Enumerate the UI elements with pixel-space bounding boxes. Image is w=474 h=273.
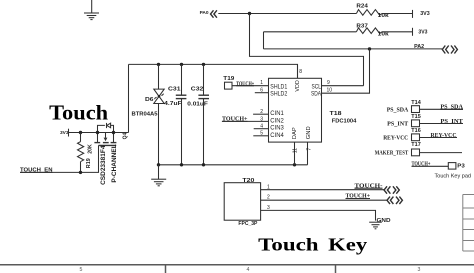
- svg-text:REY-VCC: REY-VCC: [383, 136, 408, 142]
- transistor Q4 body-diode loop: [98, 123, 114, 133]
- wire PA0 riser: [250, 14, 364, 86]
- pad P3 box: [448, 163, 456, 170]
- svg-text:5: 5: [260, 131, 263, 137]
- pin 11 DAP stub: [294, 142, 296, 165]
- title block table: [463, 195, 474, 252]
- port PA2 chevrons: [442, 46, 457, 54]
- resistor R24: [356, 10, 381, 16]
- svg-text:4.7uF: 4.7uF: [164, 101, 182, 107]
- junction C31/VDD: [180, 63, 183, 66]
- junction GND/C31: [180, 163, 183, 166]
- svg-text:MAKER_TEST: MAKER_TEST: [375, 151, 409, 157]
- svg-text:Touch Key pad: Touch Key pad: [435, 174, 472, 180]
- svg-text:R19: R19: [86, 158, 92, 168]
- svg-text:6: 6: [260, 87, 263, 93]
- svg-text:0.01uF: 0.01uF: [187, 101, 208, 107]
- wire T15 right: [420, 123, 464, 125]
- svg-text:11: 11: [292, 148, 298, 153]
- svg-text:4: 4: [247, 267, 250, 273]
- svg-text:7: 7: [306, 148, 312, 151]
- wire Q4 drain riser: [128, 64, 130, 132]
- svg-text:SHLD1: SHLD1: [270, 85, 288, 91]
- svg-text:GND: GND: [377, 218, 391, 224]
- net label TOUCH+ (T19): [236, 81, 254, 87]
- port TOUCH- chevrons: [384, 186, 399, 193]
- svg-text:SDA: SDA: [311, 92, 321, 98]
- svg-text:T20: T20: [242, 178, 254, 184]
- junction PA2/SDA: [368, 47, 371, 50]
- wire D6 top: [158, 64, 160, 89]
- junction C32/VDD: [202, 63, 205, 66]
- junction GND/D6: [157, 163, 160, 166]
- pin 4 CIN3 stub: [254, 128, 269, 130]
- connector T20 box: [224, 183, 260, 221]
- svg-text:3V3: 3V3: [60, 130, 69, 136]
- wire C31 bottom: [181, 99, 183, 165]
- svg-text:3: 3: [418, 267, 421, 273]
- svg-text:T19: T19: [223, 76, 234, 82]
- power 3V3 bar (left): [68, 129, 70, 137]
- svg-text:SHLD2: SHLD2: [270, 92, 288, 98]
- wire D6 bottom: [158, 104, 160, 165]
- wire R37 to 3V3: [382, 31, 413, 33]
- svg-text:Touch: Touch: [258, 235, 318, 255]
- wire T20 pin1 TOUCH-: [261, 189, 385, 191]
- junction D6/VDD: [157, 63, 160, 66]
- svg-text:C32: C32: [191, 87, 204, 93]
- test point T14 box: [412, 106, 420, 113]
- diode D6 (TVS): [154, 89, 164, 103]
- svg-text:2: 2: [260, 109, 263, 115]
- svg-text:PS_SDA: PS_SDA: [387, 107, 409, 113]
- zone tick left: [165, 265, 167, 273]
- junction GND/C32: [202, 163, 205, 166]
- svg-text:Touch: Touch: [49, 103, 108, 125]
- junction R19 top: [79, 131, 82, 134]
- op IC T18 FDC1004 box: [269, 78, 322, 142]
- svg-text:CIN1: CIN1: [270, 111, 284, 117]
- svg-text:FDC1004: FDC1004: [332, 119, 357, 125]
- junction GND/DAP: [293, 163, 296, 166]
- wire PA2 rail: [264, 48, 443, 50]
- junction Q4 source: [96, 131, 99, 134]
- ground (T20 pin3): [369, 222, 382, 229]
- svg-text:GND: GND: [306, 126, 312, 139]
- ground (GND rail): [151, 165, 166, 186]
- wire C32 top: [203, 64, 205, 95]
- net label PS_SDA (right): [440, 105, 463, 111]
- sheet border bottom line: [0, 264, 474, 266]
- junction Q4 drain: [112, 131, 115, 134]
- power 3V3 bar (R37): [412, 28, 414, 36]
- svg-text:DAP: DAP: [292, 127, 298, 139]
- svg-text:T15: T15: [411, 114, 421, 120]
- pin 2 CIN1 stub: [253, 113, 268, 115]
- svg-text:Q4: Q4: [123, 133, 129, 140]
- wire R24 to 3V3: [382, 13, 413, 15]
- svg-text:CIN3: CIN3: [270, 126, 284, 132]
- svg-text:T16: T16: [411, 128, 421, 134]
- test point T15 box: [412, 120, 420, 127]
- port PA0 chevron: [211, 10, 217, 17]
- net label TOUCH+ (T20): [346, 194, 371, 200]
- port TOUCH+ chevrons: [387, 197, 402, 204]
- ground (top): [84, 0, 99, 20]
- svg-text:BTR04A5: BTR04A5: [132, 112, 158, 118]
- svg-text:D6: D6: [145, 97, 154, 103]
- net label TOUCH+ (P3): [412, 161, 449, 167]
- svg-text:Key: Key: [328, 235, 367, 255]
- wire T20 pin2 TOUCH+: [261, 199, 388, 201]
- pin 7 GND stub: [307, 142, 309, 165]
- pin 1 SHLD1 stub: [232, 85, 269, 87]
- wire C32 bottom: [203, 99, 205, 165]
- svg-text:5: 5: [80, 267, 83, 273]
- wire R37 drop: [263, 32, 265, 49]
- svg-text:4: 4: [260, 124, 263, 130]
- wire VDD rail: [129, 64, 298, 78]
- svg-text:T14: T14: [411, 100, 421, 106]
- svg-text:9: 9: [327, 80, 330, 86]
- wire T14 right: [420, 108, 464, 110]
- wire PA0 to R24: [218, 13, 356, 15]
- svg-text:PA0: PA0: [200, 10, 209, 16]
- svg-text:CSD23381F4: CSD23381F4: [100, 145, 107, 185]
- net label PS_INT (right): [440, 119, 463, 125]
- pin 3 CIN2 stub: [222, 120, 269, 122]
- svg-text:C31: C31: [168, 87, 181, 93]
- test point T16 box: [412, 134, 420, 141]
- svg-text:CIN4: CIN4: [270, 133, 284, 139]
- wire TOUCH_EN to gate: [20, 145, 99, 172]
- svg-text:3: 3: [260, 116, 263, 122]
- svg-text:FPC_3P: FPC_3P: [238, 221, 257, 227]
- net label TOUCH+ (CIN2): [222, 116, 248, 122]
- svg-text:1: 1: [260, 80, 263, 86]
- wire C31 top: [181, 64, 183, 95]
- svg-text:TOUCH+: TOUCH+: [236, 81, 254, 87]
- junction PA0/SCL: [248, 12, 251, 15]
- pin 8 VDD stub wire: [297, 64, 299, 78]
- resistor R37: [356, 28, 381, 34]
- transistor Q4 channel: [94, 133, 116, 146]
- svg-text:20K: 20K: [87, 144, 93, 154]
- power 3V3 bar (R24): [412, 10, 414, 18]
- svg-text:CIN2: CIN2: [270, 118, 284, 124]
- svg-text:10k: 10k: [378, 13, 390, 19]
- svg-text:VDD: VDD: [295, 80, 301, 91]
- wire GND rail: [159, 164, 308, 166]
- svg-text:R37: R37: [356, 24, 368, 30]
- wire 3V3 to Q4: [69, 132, 129, 134]
- wire T17 right: [420, 152, 463, 154]
- svg-text:3V3: 3V3: [418, 29, 427, 35]
- svg-text:3V3: 3V3: [420, 11, 430, 17]
- capacitor C31: [176, 95, 187, 98]
- svg-text:SCL: SCL: [312, 85, 322, 91]
- wire SCL stub: [322, 85, 364, 87]
- test point T17 box: [412, 149, 420, 156]
- net label REY-VCC (right): [431, 133, 458, 139]
- wire T20 pin3 to GND: [261, 210, 376, 220]
- svg-text:PA2: PA2: [414, 44, 424, 50]
- capacitor C32: [198, 95, 209, 98]
- svg-text:10: 10: [327, 87, 333, 93]
- svg-text:R24: R24: [356, 4, 368, 10]
- net label TOUCH_EN: [20, 167, 53, 173]
- svg-text:T17: T17: [411, 142, 421, 148]
- zone tick right: [335, 265, 337, 273]
- junction R19 bottom: [79, 171, 82, 174]
- svg-text:8: 8: [299, 69, 302, 75]
- svg-text:T18: T18: [330, 111, 342, 117]
- pin 6 SHLD2 stub: [255, 92, 269, 94]
- wire SDA riser: [322, 49, 370, 93]
- svg-text:P-CHANNEL: P-CHANNEL: [111, 144, 118, 182]
- resistor R19: [78, 133, 84, 172]
- svg-text:PS_INT: PS_INT: [387, 122, 408, 128]
- svg-text:P3: P3: [457, 164, 465, 170]
- pin 5 CIN4 stub: [253, 135, 268, 137]
- net label TOUCH-: [355, 183, 383, 189]
- wire SCL-net to R37: [264, 31, 357, 33]
- test point T19 box: [225, 82, 233, 89]
- wire T16 right: [420, 137, 458, 139]
